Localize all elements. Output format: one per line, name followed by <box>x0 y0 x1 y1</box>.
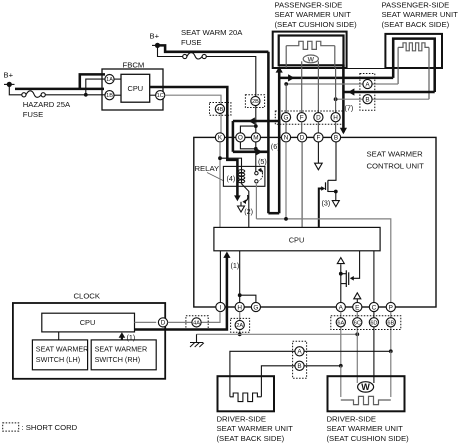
svg-text:D: D <box>161 320 166 327</box>
svg-text:: SHORT CORD: : SHORT CORD <box>22 423 78 432</box>
svg-text:2A: 2A <box>236 323 243 329</box>
svg-text:CONTROL UNIT: CONTROL UNIT <box>367 162 425 171</box>
pin 2A <box>235 320 244 329</box>
junction node hazard <box>84 93 88 97</box>
wire G column <box>285 84 287 112</box>
arrow up into cushion unit <box>276 66 283 72</box>
svg-text:B+: B+ <box>150 32 160 41</box>
pin K <box>215 133 224 142</box>
pin G harness <box>281 113 290 122</box>
wire 1C to K via 4B <box>165 95 221 133</box>
CPU box control unit <box>214 227 380 250</box>
heater element driver cushion <box>341 396 391 404</box>
FBCM CPU box <box>121 74 150 102</box>
svg-text:F: F <box>300 115 304 122</box>
signal bus to P <box>256 219 390 303</box>
svg-text:(SEAT BACK SIDE): (SEAT BACK SIDE) <box>382 20 450 29</box>
svg-text:G: G <box>284 115 289 122</box>
wire D down to CPU <box>301 142 303 227</box>
pin A bottom <box>336 302 345 311</box>
pin 1B <box>105 91 114 100</box>
thick wire cushion unit return drop <box>342 65 345 133</box>
wire fuse output to junction <box>45 94 105 96</box>
wire F-D <box>301 122 303 133</box>
pin B top <box>331 133 340 142</box>
pin C bottom <box>369 302 378 311</box>
thick wire riser to cushion unit (V3) <box>278 70 281 214</box>
svg-text:CPU: CPU <box>80 318 96 327</box>
pin I <box>216 302 225 311</box>
pin F top <box>314 133 323 142</box>
svg-text:2B: 2B <box>252 99 259 105</box>
transistor Q4 structure <box>340 264 342 302</box>
svg-text:E: E <box>355 304 359 311</box>
relay switch contact top <box>255 172 258 175</box>
pin H bottom <box>235 302 244 311</box>
wire P pin to 6B <box>390 312 392 352</box>
wire H-B <box>335 122 337 133</box>
heater element passenger back <box>397 47 399 84</box>
svg-text:FUSE: FUSE <box>23 110 44 119</box>
wire LH switch to CPU <box>58 332 60 340</box>
pin H harness <box>331 113 340 122</box>
wire O jumper bottom <box>240 142 255 149</box>
wire H column <box>335 68 337 113</box>
wire C to CPU <box>373 251 375 303</box>
svg-text:(SEAT CUSHION SIDE): (SEAT CUSHION SIDE) <box>327 434 410 443</box>
wire D to I via 4A <box>168 312 220 323</box>
svg-text:H: H <box>333 115 338 122</box>
thick wire RH switch signal <box>121 334 123 340</box>
short cord 2B dashed box <box>245 95 264 108</box>
thick power wire through back unit <box>393 39 435 92</box>
wire D-F <box>317 122 319 133</box>
arrow right Q3 gate <box>321 186 325 191</box>
thermostat driver cushion <box>358 382 374 392</box>
wire M to relay switch <box>255 142 257 171</box>
wire back unit B to heater right leg <box>336 98 429 100</box>
svg-text:SEAT WARMER UNIT: SEAT WARMER UNIT <box>382 10 459 19</box>
svg-text:G: G <box>253 304 258 311</box>
wire seat warm fuse output <box>206 57 256 97</box>
thick wire fuse drop (V2) <box>267 52 270 213</box>
wire E pin to 6C <box>356 312 358 335</box>
pin 2B <box>251 96 260 105</box>
power triangle Q4 <box>337 258 344 264</box>
connector dashed box G F D H <box>275 111 343 124</box>
driver cushion unit box <box>328 376 405 411</box>
short cord 2A dashed box <box>231 318 250 332</box>
wire I to CPU <box>219 251 221 303</box>
svg-text:I: I <box>220 304 222 311</box>
svg-text:4A: 4A <box>193 320 200 326</box>
svg-text:SEAT WARMER UNIT: SEAT WARMER UNIT <box>217 424 294 433</box>
pin B (7) <box>363 95 372 104</box>
thick wire U-turn <box>268 212 279 215</box>
wire relay switch to bus <box>255 184 257 219</box>
clock CPU box <box>42 313 135 332</box>
connector dashed box 6A 6C 6D 6B <box>331 316 401 330</box>
wire E to triangle <box>356 299 358 303</box>
junction dot 2A bus <box>238 332 242 336</box>
junction dot O jumper top <box>254 124 258 128</box>
svg-text:B: B <box>297 363 301 370</box>
thick wire feed to back unit <box>279 77 393 80</box>
arrow left on return wire <box>348 88 354 95</box>
pin D top <box>298 133 307 142</box>
thick wire clock signal (1) <box>135 254 227 330</box>
wire H to CPU <box>239 251 241 303</box>
svg-text:CPU: CPU <box>127 84 143 93</box>
svg-text:HAZARD 25A: HAZARD 25A <box>23 100 71 109</box>
svg-text:(7): (7) <box>345 104 354 113</box>
thick wire back unit return <box>343 91 434 94</box>
seat warmer switch LH box <box>32 340 87 370</box>
svg-text:SEAT WARMER UNIT: SEAT WARMER UNIT <box>327 424 404 433</box>
ground triangle transistor 2 <box>238 206 245 212</box>
pin 1C <box>156 91 165 100</box>
arrow left on detour top <box>249 117 255 124</box>
svg-text:1B: 1B <box>106 93 113 99</box>
svg-text:(4): (4) <box>227 174 236 183</box>
svg-text:1A: 1A <box>106 77 113 83</box>
svg-text:(3): (3) <box>322 198 331 207</box>
wire driver A to back unit <box>230 351 295 397</box>
junction dot K coil feed <box>218 156 222 160</box>
heater element driver back <box>230 393 262 402</box>
svg-text:DRIVER-SIDE: DRIVER-SIDE <box>327 415 377 424</box>
svg-text:A: A <box>339 304 344 311</box>
FBCM box <box>102 69 163 110</box>
junction dot A wire to G leg <box>284 82 288 86</box>
junction dot A to 6B <box>389 349 393 353</box>
connector dashed box driver A/B <box>293 341 307 378</box>
short cord 4B dashed box <box>210 103 231 116</box>
thick wire seat warm bus <box>158 45 269 51</box>
relay coil wire from K <box>220 158 242 169</box>
pin E bottom <box>353 302 362 311</box>
thermostat passenger cushion <box>303 55 318 63</box>
wire driver B to back unit <box>261 366 295 397</box>
wire G loop <box>240 295 256 302</box>
relay switch arrow <box>259 170 263 173</box>
connector (7) dashed box <box>360 74 375 111</box>
svg-text:B: B <box>334 135 338 142</box>
svg-text:F: F <box>316 135 320 142</box>
legend short cord symbol <box>3 423 19 431</box>
svg-text:D: D <box>300 135 305 142</box>
wire 6A down to element <box>340 366 342 397</box>
fuse SEAT WARM 20A <box>183 54 187 58</box>
clock box <box>13 303 165 379</box>
ground triangle F pin <box>315 163 323 170</box>
wire C pin to 6D <box>373 312 375 383</box>
svg-text:H: H <box>237 304 242 311</box>
pin O <box>236 133 245 142</box>
wire between unit boxes <box>347 68 386 70</box>
junction dot B wire to H leg <box>334 97 338 101</box>
svg-text:W: W <box>361 382 370 392</box>
pin 6A <box>336 318 345 327</box>
svg-text:A: A <box>365 81 370 88</box>
svg-text:PASSENGER-SIDE: PASSENGER-SIDE <box>275 1 343 10</box>
arrow up RH switch signal <box>119 332 126 338</box>
thick gate wire Q3 from CPU <box>319 189 323 228</box>
svg-text:SEAT WARMER: SEAT WARMER <box>36 344 89 353</box>
svg-text:1C: 1C <box>157 93 164 99</box>
wire clock CPU to D <box>135 321 157 323</box>
wire 6C to thermostat <box>356 334 358 383</box>
junction dot O jumper bottom <box>254 147 258 151</box>
wire hazard thin from B+ down to fuse <box>9 84 21 94</box>
wire driver A to 6B junction <box>304 350 391 352</box>
svg-text:CLOCK: CLOCK <box>74 292 101 301</box>
wire 1A to CPU <box>114 78 121 80</box>
svg-text:SEAT WARMER UNIT: SEAT WARMER UNIT <box>275 10 352 19</box>
pin G bottom <box>251 302 260 311</box>
arrow right on detour bottom <box>256 148 262 155</box>
wire back unit A to heater left leg <box>286 83 398 85</box>
svg-text:(SEAT BACK SIDE): (SEAT BACK SIDE) <box>217 434 285 443</box>
svg-text:DRIVER-SIDE: DRIVER-SIDE <box>217 415 267 424</box>
pin 1A <box>105 75 114 84</box>
thick wire FBCM output <box>150 87 238 197</box>
svg-text:PASSENGER-SIDE: PASSENGER-SIDE <box>382 1 450 10</box>
svg-text:4B: 4B <box>216 107 223 113</box>
relay switch blade dashed <box>259 173 262 181</box>
svg-text:CPU: CPU <box>289 235 305 244</box>
pin 4B <box>215 104 224 113</box>
svg-text:M: M <box>253 135 258 142</box>
svg-text:A: A <box>297 349 302 356</box>
svg-text:C: C <box>372 304 377 311</box>
svg-text:W: W <box>308 56 315 63</box>
junction dot B to 6A <box>339 364 343 368</box>
svg-text:B+: B+ <box>4 71 14 80</box>
thick loop detour left <box>232 121 235 152</box>
pin 6C <box>353 318 362 327</box>
ground triangle transistor 3 <box>332 201 339 207</box>
svg-text:D: D <box>316 115 321 122</box>
svg-text:N: N <box>284 135 289 142</box>
pin N <box>281 133 290 142</box>
junction dot N bus <box>284 217 288 221</box>
wire thin from B+ down to seat warm fuse <box>158 45 183 56</box>
svg-text:6C: 6C <box>354 320 361 326</box>
wire A pin to 6A <box>340 312 342 366</box>
svg-text:(6): (6) <box>271 142 280 151</box>
arrow down into control unit <box>340 128 347 134</box>
svg-text:SEAT WARMER: SEAT WARMER <box>367 150 424 159</box>
wire CPU to 1C <box>150 94 156 96</box>
svg-text:K: K <box>218 135 223 142</box>
pin A driver <box>295 347 304 356</box>
wire 1B to CPU <box>114 94 121 96</box>
pin P bottom <box>386 302 395 311</box>
wire 2B to M <box>255 97 257 134</box>
gate wire Q4 from CPU <box>352 251 359 278</box>
svg-text:FBCM: FBCM <box>123 61 145 70</box>
wire O jumper top <box>240 126 255 133</box>
wire K down to CPU <box>219 142 221 227</box>
pin B driver <box>295 361 304 370</box>
junction dot thermostat bus <box>355 332 359 336</box>
wire junction up to 1A <box>86 79 105 95</box>
power triangle E pin <box>354 293 361 299</box>
svg-text:SEAT WARM 20A: SEAT WARM 20A <box>181 28 243 37</box>
short cord 4A dashed box <box>186 316 208 330</box>
wire F to ground arrow <box>317 142 319 163</box>
heater element passenger cushion <box>285 46 287 68</box>
pin 4A <box>192 318 201 327</box>
driver back unit box <box>218 376 275 411</box>
arrow down B+ into transistor 2 <box>234 195 241 201</box>
svg-text:6B: 6B <box>387 320 394 326</box>
svg-text:O: O <box>238 135 243 142</box>
arrow up clock signal <box>223 252 230 258</box>
relay box <box>223 166 265 186</box>
wire thermostat left leg <box>301 61 303 67</box>
junction dot Q3 source <box>334 190 338 194</box>
junction dot H-G loop <box>238 293 242 297</box>
wire G-N <box>285 122 287 133</box>
svg-text:6A: 6A <box>337 320 344 326</box>
passenger back unit box <box>385 34 442 68</box>
relay label pointer <box>207 173 224 182</box>
thick power loop inside cushion unit <box>279 36 344 66</box>
transistor Q3 structure <box>327 180 329 192</box>
svg-text:(2): (2) <box>244 207 253 216</box>
ground symbol <box>196 334 198 342</box>
pin A (7) <box>363 79 372 88</box>
thick loop detour bottom <box>233 151 269 154</box>
arrow right on feed wire <box>288 74 294 81</box>
thick wire B+ bus jog to 1A <box>80 74 105 89</box>
svg-text:SWITCH (LH): SWITCH (LH) <box>36 355 80 364</box>
wire N down to bus <box>285 142 287 219</box>
wire driver B to 6A junction <box>304 365 341 367</box>
svg-text:SEAT WARMER: SEAT WARMER <box>95 344 148 353</box>
wire F column <box>301 68 303 113</box>
junction dot Q4 drain <box>339 272 343 276</box>
svg-text:SWITCH (RH): SWITCH (RH) <box>95 355 141 364</box>
pin M <box>251 133 260 142</box>
relay coil <box>241 169 243 183</box>
passenger cushion unit box <box>273 32 347 68</box>
relay coil to cpu diagonal <box>242 184 249 228</box>
pin 6B <box>386 318 395 327</box>
wire thermostat right leg <box>317 61 319 67</box>
pin D harness <box>314 113 323 122</box>
svg-text:P: P <box>389 304 393 311</box>
seat warmer control unit box <box>194 137 436 307</box>
pin F harness <box>297 113 306 122</box>
svg-text:RELAY: RELAY <box>195 164 220 173</box>
relay switch contact bottom <box>255 180 258 183</box>
thick loop detour top <box>233 120 279 123</box>
wire B down to transistor 3 <box>328 142 336 180</box>
svg-text:(5): (5) <box>258 157 267 166</box>
svg-text:(1): (1) <box>231 261 240 270</box>
wire H pin down through 2A <box>239 312 241 335</box>
ground bus wire <box>197 333 358 335</box>
transistor Q2 structure <box>240 202 242 206</box>
svg-text:6D: 6D <box>370 320 377 326</box>
pin 6D <box>369 318 378 327</box>
svg-text:B: B <box>365 97 369 104</box>
svg-text:FUSE: FUSE <box>181 38 202 47</box>
seat warmer switch RH box <box>91 340 156 370</box>
pin D clock <box>158 318 167 327</box>
fuse HAZARD 25A <box>22 93 26 97</box>
svg-text:(SEAT CUSHION SIDE): (SEAT CUSHION SIDE) <box>275 20 358 29</box>
wire 6B down to element <box>390 351 392 397</box>
thick wire B+ bus to FBCM <box>15 88 104 91</box>
wire D column <box>317 68 319 113</box>
